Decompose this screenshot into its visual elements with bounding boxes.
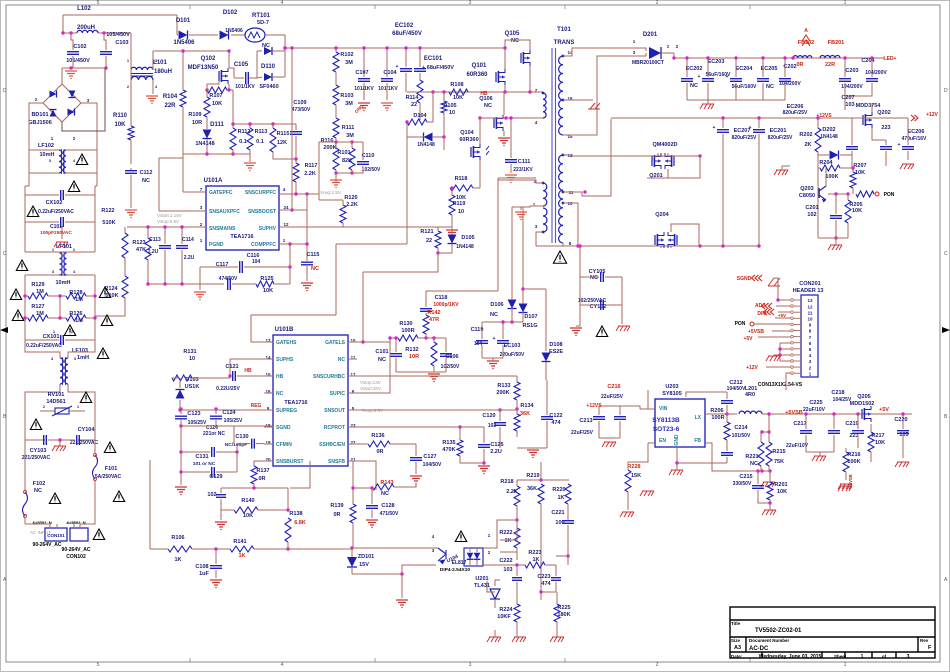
svg-text:10mH: 10mH xyxy=(40,152,55,158)
svg-text:102: 102 xyxy=(807,212,816,218)
svg-text:105/450V: 105/450V xyxy=(106,32,130,38)
svg-text:R216: R216 xyxy=(847,452,860,458)
wire pin16 xyxy=(563,99,593,101)
svg-text:Rev: Rev xyxy=(920,638,929,643)
svg-text:2: 2 xyxy=(656,662,659,668)
svg-text:1: 1 xyxy=(844,662,847,668)
wire snsboost vert xyxy=(306,194,308,261)
svg-text:10: 10 xyxy=(458,209,464,215)
wire xyxy=(25,524,50,528)
svg-text:C203: C203 xyxy=(845,68,858,74)
svg-text:5: 5 xyxy=(97,0,100,6)
svg-text:D107: D107 xyxy=(524,314,537,320)
svg-text:US1K: US1K xyxy=(185,384,200,390)
svg-text:R141: R141 xyxy=(233,539,246,545)
svg-text:1: 1 xyxy=(861,654,864,660)
svg-text:0.1: 0.1 xyxy=(239,139,247,145)
svg-text:10R: 10R xyxy=(192,120,202,126)
wire snscurhbc xyxy=(357,375,517,377)
wire q102 gate xyxy=(207,81,219,90)
svg-text:56uF/160V: 56uF/160V xyxy=(732,84,757,90)
svg-text:22uF/10V: 22uF/10V xyxy=(786,443,809,449)
gnd xyxy=(52,446,66,451)
svg-text:R106: R106 xyxy=(171,535,184,541)
svg-text:R120: R120 xyxy=(344,195,357,201)
svg-text:22R: 22R xyxy=(825,62,835,68)
svg-text:24: 24 xyxy=(283,205,289,210)
wire xyxy=(640,408,655,410)
wire pfc choke xyxy=(130,33,132,126)
svg-text:104/50V: 104/50V xyxy=(727,386,746,392)
svg-text:NC: NC xyxy=(381,491,389,497)
svg-text:10: 10 xyxy=(807,317,813,322)
svg-text:R132: R132 xyxy=(405,347,418,353)
svg-text:22uF/10V: 22uF/10V xyxy=(803,407,826,413)
svg-text:TEA1716: TEA1716 xyxy=(230,234,253,240)
net flag A xyxy=(802,35,810,46)
wire gatepfc xyxy=(183,191,206,193)
svg-text:C8050: C8050 xyxy=(799,193,815,199)
gnd xyxy=(366,520,378,528)
wire gate loop xyxy=(647,156,700,178)
svg-text:D101: D101 xyxy=(176,18,191,24)
svg-text:GATELS: GATELS xyxy=(325,340,346,346)
svg-text:820uF/25V: 820uF/25V xyxy=(732,135,757,141)
wire supreg xyxy=(180,409,264,411)
svg-text:C222: C222 xyxy=(499,558,512,564)
wire opto pin3 row xyxy=(352,547,438,549)
svg-text:EC201: EC201 xyxy=(770,128,787,134)
svg-text:101/1KV: 101/1KV xyxy=(378,86,398,92)
svg-text:F101: F101 xyxy=(105,466,118,472)
svg-text:180uH: 180uH xyxy=(154,69,172,75)
wire r116 path xyxy=(319,142,336,200)
wire pin3 xyxy=(536,232,543,246)
svg-text:R201: R201 xyxy=(774,482,787,488)
svg-text:68uF/450V: 68uF/450V xyxy=(392,31,422,37)
wire r137 row xyxy=(221,487,288,489)
svg-text:Vstart:1.15V: Vstart:1.15V xyxy=(157,213,182,218)
wire gate loop2 xyxy=(671,224,699,246)
svg-text:R224: R224 xyxy=(499,607,513,613)
svg-text:105/25V: 105/25V xyxy=(188,420,207,426)
svg-text:R102: R102 xyxy=(340,52,353,58)
svg-text:EC203: EC203 xyxy=(708,59,725,65)
svg-text:22: 22 xyxy=(411,102,417,108)
svg-text:14D561: 14D561 xyxy=(46,399,65,405)
gnd slash xyxy=(669,470,683,475)
svg-text:101 or NC: 101 or NC xyxy=(193,461,216,467)
svg-text:1K: 1K xyxy=(174,557,181,563)
svg-text:100pF250VAC: 100pF250VAC xyxy=(40,230,72,236)
svg-text:+: + xyxy=(493,336,496,342)
svg-text:100R: 100R xyxy=(401,328,414,334)
svg-text:SSHBC/EN: SSHBC/EN xyxy=(319,442,345,448)
svg-text:LF102: LF102 xyxy=(38,143,54,149)
svg-text:473/50V: 473/50V xyxy=(292,107,311,113)
wire gnd rail xyxy=(687,99,785,101)
svg-text:SUPHV: SUPHV xyxy=(259,226,277,232)
svg-text:90-264V_AC: 90-264V_AC xyxy=(33,542,62,548)
wire xyxy=(229,68,234,78)
svg-text:Sheet: Sheet xyxy=(834,654,847,659)
gnd xyxy=(301,283,313,291)
svg-text:+: + xyxy=(749,125,752,131)
svg-text:6.8K: 6.8K xyxy=(294,520,306,526)
svg-text:FB: FB xyxy=(694,438,701,444)
svg-text:10R: 10R xyxy=(409,354,419,360)
svg-text:CY104: CY104 xyxy=(78,427,96,433)
svg-text:10K: 10K xyxy=(243,513,253,519)
svg-text:10K: 10K xyxy=(212,101,222,107)
svg-text:TEA1716: TEA1716 xyxy=(284,400,307,406)
svg-text:11: 11 xyxy=(808,310,813,315)
svg-text:C113: C113 xyxy=(149,237,161,243)
svg-text:3: 3 xyxy=(469,662,472,668)
svg-text:GBJ1506: GBJ1506 xyxy=(28,120,52,126)
svg-text:HEADER 13: HEADER 13 xyxy=(793,288,824,294)
svg-text:C219: C219 xyxy=(845,421,858,427)
svg-text:R207: R207 xyxy=(853,163,866,169)
wire suphv aux xyxy=(343,226,452,228)
wire xyxy=(348,409,517,411)
svg-text:SNSCURPFC: SNSCURPFC xyxy=(245,190,277,196)
svg-text:U203: U203 xyxy=(665,384,678,390)
svg-text:0.22uF/250VAC: 0.22uF/250VAC xyxy=(26,343,62,349)
wire pin10 xyxy=(563,203,578,246)
wire rail q102 xyxy=(153,50,229,52)
wire R138 up xyxy=(290,461,310,488)
svg-text:12: 12 xyxy=(807,304,813,309)
svg-text:DIP4-2.54X10: DIP4-2.54X10 xyxy=(440,567,470,573)
svg-text:R134: R134 xyxy=(520,403,534,409)
svg-text:R223: R223 xyxy=(528,550,541,556)
svg-text:C216: C216 xyxy=(607,384,620,390)
wire xyxy=(806,451,834,453)
svg-text:CY103: CY103 xyxy=(30,448,47,454)
svg-text:+12V: +12V xyxy=(746,365,758,371)
svg-text:MDF13N50: MDF13N50 xyxy=(188,65,219,71)
svg-text:R221: R221 xyxy=(745,454,758,460)
svg-text:+5VSB: +5VSB xyxy=(748,329,764,335)
svg-text:1N5406: 1N5406 xyxy=(173,40,195,46)
wire xyxy=(66,172,97,174)
svg-text:C: C xyxy=(3,251,7,257)
svg-text:C103: C103 xyxy=(115,40,128,46)
wire sense row xyxy=(233,123,296,125)
wire snsburst xyxy=(254,461,264,466)
svg-text:ZD101: ZD101 xyxy=(358,554,375,560)
wire opto pin2 xyxy=(483,564,517,566)
svg-text:R127: R127 xyxy=(31,304,44,310)
svg-text:R122: R122 xyxy=(101,208,114,214)
svg-text:PON: PON xyxy=(884,192,895,198)
gnd slash xyxy=(700,104,714,109)
svg-text:R104: R104 xyxy=(163,94,178,100)
earth mark xyxy=(61,226,63,239)
svg-text:R131: R131 xyxy=(183,349,196,355)
wire gatels xyxy=(357,338,390,342)
svg-text:D111: D111 xyxy=(210,122,224,128)
svg-text:C123: C123 xyxy=(187,411,200,417)
svg-text:223/1KV: 223/1KV xyxy=(513,167,533,173)
svg-text:10K: 10K xyxy=(875,440,885,446)
svg-text:SGND: SGND xyxy=(737,276,752,282)
wire xyxy=(230,359,264,376)
svg-text:MBR20100CT: MBR20100CT xyxy=(632,60,664,66)
wire xyxy=(786,373,791,378)
svg-text:2.2U: 2.2U xyxy=(184,255,195,261)
warning xyxy=(16,260,27,271)
wire xyxy=(24,296,26,340)
svg-text:Q106: Q106 xyxy=(479,96,492,102)
wire cfmin xyxy=(233,426,235,444)
svg-text:+5V: +5V xyxy=(743,336,753,342)
svg-text:10K: 10K xyxy=(777,489,787,495)
warning xyxy=(93,529,104,540)
wire sgnd xyxy=(181,425,273,427)
svg-text:C102: C102 xyxy=(73,44,86,50)
svg-text:820uF/25V: 820uF/25V xyxy=(768,135,793,141)
wire xyxy=(279,244,290,284)
warning xyxy=(80,392,91,403)
svg-text:COMPPFC: COMPPFC xyxy=(251,242,276,248)
svg-text:REG: REG xyxy=(251,403,262,409)
svg-text:3M: 3M xyxy=(346,133,354,139)
gnd xyxy=(175,487,187,495)
svg-text:C: C xyxy=(944,251,948,257)
wire supic xyxy=(357,338,390,393)
svg-text:R108: R108 xyxy=(450,82,463,88)
wire bridge right xyxy=(81,103,97,150)
svg-text:22: 22 xyxy=(426,238,432,244)
wire xyxy=(500,518,517,540)
svg-text:2.2U: 2.2U xyxy=(148,249,159,255)
svg-text:R206: R206 xyxy=(710,408,723,414)
gnd slash xyxy=(762,510,776,515)
svg-text:RCPROT: RCPROT xyxy=(324,425,345,431)
svg-text:A3: A3 xyxy=(734,645,741,651)
gnd slash xyxy=(766,356,780,361)
wire xyxy=(443,120,445,137)
svg-text:HB: HB xyxy=(276,374,284,380)
svg-text:221/250VAC: 221/250VAC xyxy=(70,440,99,446)
svg-text:R110: R110 xyxy=(113,113,128,119)
svg-text:10: 10 xyxy=(189,356,195,362)
svg-text:47K: 47K xyxy=(136,247,146,253)
svg-text:NC: NC xyxy=(511,38,519,44)
svg-text:SOT23-6: SOT23-6 xyxy=(653,426,680,433)
wire fb xyxy=(705,443,770,471)
svg-text:T101: T101 xyxy=(557,27,571,33)
svg-text:1K: 1K xyxy=(504,538,511,544)
svg-text:1mH: 1mH xyxy=(77,355,89,361)
svg-text:+5VSB: +5VSB xyxy=(848,474,853,487)
svg-text:1N4148: 1N4148 xyxy=(195,141,214,147)
svg-text:SNSAUXPFC: SNSAUXPFC xyxy=(209,209,240,215)
warning xyxy=(455,531,466,542)
svg-text:D102: D102 xyxy=(223,10,238,16)
wire xyxy=(25,340,60,358)
gnd slash xyxy=(774,170,788,175)
diode D104b xyxy=(424,133,433,142)
svg-text:36K: 36K xyxy=(527,486,537,492)
svg-text:FB202: FB202 xyxy=(798,40,815,46)
svg-text:0.22uF/250VAC: 0.22uF/250VAC xyxy=(38,209,74,215)
svg-text:10K: 10K xyxy=(852,208,862,214)
svg-text:10: 10 xyxy=(449,110,455,116)
wire gnd pin xyxy=(677,448,727,463)
svg-text:RS1G: RS1G xyxy=(523,323,538,329)
wire cy link xyxy=(579,246,581,277)
wire xyxy=(844,96,846,110)
svg-text:C221: C221 xyxy=(551,510,564,516)
svg-text:R133: R133 xyxy=(497,383,510,389)
svg-text:LED+: LED+ xyxy=(884,56,897,62)
svg-text:471/50V: 471/50V xyxy=(380,511,399,517)
wire aux to gatels xyxy=(363,253,438,272)
svg-text:EC204: EC204 xyxy=(736,66,754,72)
svg-text:NC/1o5pF: NC/1o5pF xyxy=(225,442,247,448)
svg-text:C220: C220 xyxy=(894,417,907,423)
svg-text:R111: R111 xyxy=(342,125,355,131)
svg-text:D202: D202 xyxy=(822,127,835,133)
svg-text:R129: R129 xyxy=(31,282,44,288)
svg-text:R109: R109 xyxy=(188,112,201,118)
svg-text:NC: NC xyxy=(490,312,498,318)
wire +5vsb rail vertical xyxy=(785,378,787,390)
wire boost sense xyxy=(291,48,293,210)
svg-text:D: D xyxy=(3,88,7,94)
svg-text:SNSBOOST: SNSBOOST xyxy=(248,209,276,215)
title block xyxy=(730,607,935,658)
svg-text:C125: C125 xyxy=(490,442,503,448)
wire xyxy=(872,136,886,140)
gnd xyxy=(478,466,490,474)
svg-text:NC: NC xyxy=(766,84,774,90)
wire q203 row xyxy=(818,237,848,239)
svg-text:C201: C201 xyxy=(805,205,818,211)
svg-text:SNSOUT: SNSOUT xyxy=(324,408,345,414)
svg-text:102: 102 xyxy=(207,492,216,498)
svg-text:Vstop:13V: Vstop:13V xyxy=(360,380,381,385)
svg-text:BD101: BD101 xyxy=(31,112,48,118)
svg-text:PGND: PGND xyxy=(209,242,224,248)
wire opto emitter xyxy=(402,565,436,574)
svg-text:ES2E: ES2E xyxy=(549,349,563,355)
wire xyxy=(265,35,285,77)
wire xyxy=(62,67,106,69)
wire +12V rail xyxy=(611,117,908,119)
wire xyxy=(232,90,234,124)
svg-text:R222: R222 xyxy=(499,530,512,536)
svg-text:R114: R114 xyxy=(406,95,420,101)
svg-text:SY8105: SY8105 xyxy=(662,391,682,397)
svg-text:C120: C120 xyxy=(482,413,495,419)
svg-text:C225: C225 xyxy=(809,400,822,406)
svg-text:C112: C112 xyxy=(140,170,153,176)
wire bs xyxy=(686,392,727,397)
wire aux pin2 xyxy=(498,177,536,179)
svg-text:10K: 10K xyxy=(453,95,463,101)
svg-text:470uF/16V: 470uF/16V xyxy=(902,136,927,142)
svg-text:100R: 100R xyxy=(711,415,724,421)
svg-text:Q202: Q202 xyxy=(877,110,890,116)
svg-text:1K: 1K xyxy=(238,553,245,559)
svg-text:R219: R219 xyxy=(526,473,539,479)
svg-text:102/250VAC: 102/250VAC xyxy=(578,298,607,304)
svg-text:R116: R116 xyxy=(321,138,334,144)
svg-text:LF101: LF101 xyxy=(56,244,72,250)
svg-text:221or NC: 221or NC xyxy=(203,431,225,437)
svg-text:10mH: 10mH xyxy=(56,280,71,286)
wire fb row xyxy=(353,487,372,489)
svg-text:104/200V: 104/200V xyxy=(865,70,887,76)
wire r228 xyxy=(627,500,629,510)
wire bridge top xyxy=(61,68,63,84)
svg-text:C130: C130 xyxy=(235,434,248,440)
svg-text:C115: C115 xyxy=(307,252,320,258)
wire xyxy=(29,149,59,151)
gnd xyxy=(570,328,582,336)
svg-text:15K: 15K xyxy=(631,473,641,479)
gnd xyxy=(446,230,458,238)
opto leds xyxy=(467,553,474,560)
svg-text:NC: NC xyxy=(338,357,346,363)
svg-text:U101B: U101B xyxy=(275,327,294,333)
svg-text:C104: C104 xyxy=(383,70,397,76)
wire pin12 xyxy=(563,155,630,156)
svg-text:C111: C111 xyxy=(518,159,531,165)
svg-text:SUPREG: SUPREG xyxy=(276,408,297,414)
optocoupler U104 EL817 xyxy=(464,548,483,566)
svg-text:104/50V: 104/50V xyxy=(423,462,442,468)
gnd xyxy=(487,361,499,369)
svg-text:LF103: LF103 xyxy=(72,348,88,354)
wire snsout xyxy=(348,409,357,411)
svg-text:104: 104 xyxy=(252,259,261,265)
svg-text:+12V: +12V xyxy=(926,112,938,118)
svg-text:R228: R228 xyxy=(627,464,640,470)
svg-text:NC: NC xyxy=(590,275,598,281)
ground xyxy=(244,163,256,171)
svg-text:101/50V: 101/50V xyxy=(732,433,751,439)
connector CON102 xyxy=(70,528,88,541)
svg-text:474: 474 xyxy=(551,420,561,426)
warning xyxy=(64,325,75,336)
svg-text:C207: C207 xyxy=(841,95,854,101)
wire xyxy=(63,14,177,16)
svg-text:60R360: 60R360 xyxy=(459,137,478,143)
wire xyxy=(29,150,59,173)
ground xyxy=(330,180,342,188)
svg-text:SF0460: SF0460 xyxy=(259,84,278,90)
svg-text:AC INPUT: AC INPUT xyxy=(30,530,51,535)
wire xyxy=(253,487,255,489)
svg-text:3M: 3M xyxy=(345,101,353,107)
svg-text:22uF/25V: 22uF/25V xyxy=(601,394,624,400)
svg-text:R215: R215 xyxy=(772,449,785,455)
svg-text:C107: C107 xyxy=(355,70,368,76)
svg-text:CON201: CON201 xyxy=(799,281,820,287)
svg-text:10KF: 10KF xyxy=(497,614,511,620)
capacitor C208 xyxy=(846,147,858,150)
svg-text:1: 1 xyxy=(844,0,847,6)
svg-text:R138: R138 xyxy=(289,511,302,517)
svg-text:103: 103 xyxy=(845,102,854,108)
svg-text:Q205: Q205 xyxy=(857,394,870,400)
svg-text:U101A: U101A xyxy=(204,178,223,184)
